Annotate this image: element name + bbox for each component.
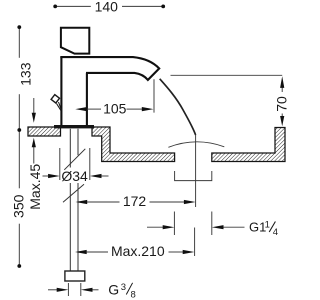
- svg-text:1: 1: [265, 220, 270, 231]
- svg-text:G: G: [108, 282, 119, 298]
- svg-text:Ø34: Ø34: [61, 168, 88, 184]
- svg-text:172: 172: [123, 193, 147, 209]
- svg-text:105: 105: [103, 100, 127, 116]
- svg-text:140: 140: [95, 0, 119, 14]
- svg-text:350: 350: [10, 194, 26, 218]
- svg-text:4: 4: [273, 227, 278, 238]
- svg-text:70: 70: [273, 96, 289, 112]
- svg-text:Max.45: Max.45: [27, 164, 43, 210]
- svg-text:133: 133: [18, 62, 34, 86]
- svg-text:Max.210: Max.210: [111, 243, 165, 259]
- svg-text:3: 3: [121, 282, 126, 293]
- svg-text:8: 8: [131, 289, 136, 300]
